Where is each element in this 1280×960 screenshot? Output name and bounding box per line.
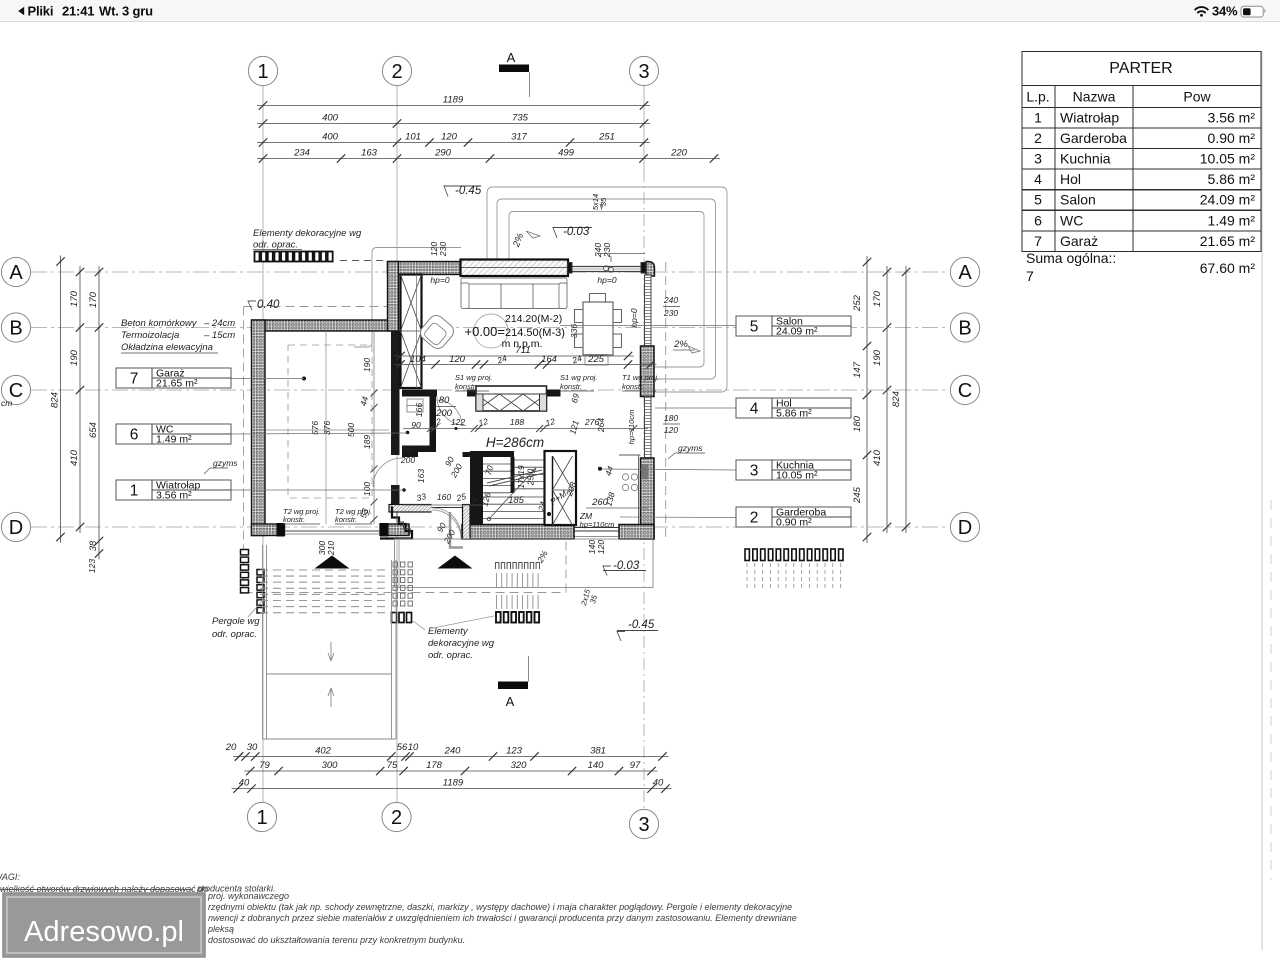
south wall: stairs segment	[462, 525, 574, 540]
svg-text:1.49 m²: 1.49 m²	[156, 434, 192, 446]
svg-text:odr. oprac.: odr. oprac.	[253, 240, 298, 251]
svg-text:dostosować do ukształtowania t: dostosować do ukształtowania terenu przy…	[208, 935, 465, 945]
wall axis dash top-left	[340, 260, 388, 262]
svg-text:S1 wg proj.: S1 wg proj.	[560, 373, 598, 382]
svg-text:80: 80	[439, 395, 450, 406]
svg-text:-0.03: -0.03	[563, 226, 590, 238]
svg-text:240: 240	[444, 746, 462, 757]
stair walk arrow	[487, 468, 536, 521]
svg-text:120: 120	[596, 540, 606, 554]
wifi icon	[1195, 7, 1208, 17]
svg-text:4: 4	[750, 401, 759, 418]
sheet frame right edge	[1261, 51, 1263, 950]
svg-text:190: 190	[872, 349, 883, 366]
svg-text:824: 824	[891, 391, 902, 407]
status bar	[0, 0, 1280, 22]
pergola squares column B	[257, 570, 264, 613]
svg-text:pleksą: pleksą	[207, 924, 234, 934]
svg-text:Termoizolacja: Termoizolacja	[121, 330, 179, 341]
battery icon	[1241, 6, 1263, 17]
svg-text:7: 7	[130, 371, 139, 388]
svg-text:A: A	[958, 262, 972, 284]
svg-text:381: 381	[590, 746, 606, 757]
terrace outline middle	[497, 199, 716, 379]
svg-text:178: 178	[426, 760, 443, 771]
svg-text:122: 122	[451, 417, 465, 427]
svg-text:200: 200	[400, 455, 415, 465]
right dim 252-147-180-245	[852, 256, 871, 543]
svg-text:odr. oprac.: odr. oprac.	[428, 650, 473, 661]
bottom dim row 3	[232, 778, 672, 793]
svg-text:56: 56	[397, 742, 408, 753]
svg-text:WC: WC	[1060, 212, 1083, 228]
svg-text:0.90 m²: 0.90 m²	[1208, 130, 1256, 146]
svg-text:101: 101	[405, 132, 421, 143]
right dim 170-190-410	[872, 266, 891, 533]
PARTER table	[1022, 52, 1261, 252]
east wall: glazing lower (hp=110)	[645, 397, 652, 459]
svg-text:0.40: 0.40	[257, 299, 280, 311]
svg-text:21.65 m²: 21.65 m²	[1200, 233, 1256, 249]
hol dim row	[403, 392, 648, 435]
svg-text:Hol: Hol	[1060, 171, 1081, 187]
svg-text:hp=0: hp=0	[629, 308, 639, 327]
decorative squares row (top)	[255, 252, 333, 262]
svg-text:264: 264	[596, 418, 606, 433]
garage leader dot	[302, 377, 306, 381]
kitchen dim 260/138	[586, 507, 648, 509]
svg-text:376: 376	[322, 421, 332, 435]
grid bubble 2 bottom	[382, 802, 411, 831]
svg-text:317: 317	[511, 132, 528, 143]
svg-text:10: 10	[408, 742, 419, 753]
svg-text:500: 500	[346, 423, 356, 437]
svg-text:3: 3	[638, 814, 649, 836]
svg-text:B: B	[9, 318, 22, 340]
entrance porch steps	[380, 507, 412, 539]
left dim 824	[50, 256, 65, 544]
svg-text:cm: cm	[1, 398, 12, 408]
svg-text:3: 3	[1034, 151, 1042, 167]
svg-text:499: 499	[558, 148, 575, 159]
svg-text:576: 576	[310, 421, 320, 435]
level mark -0.03 top	[553, 226, 592, 238]
svg-text:188: 188	[510, 417, 524, 427]
wall between garage and house	[391, 331, 400, 455]
staircase mid wall	[511, 457, 515, 493]
room label 1 Wiatrolap	[116, 480, 231, 502]
svg-text:hp=0: hp=0	[597, 275, 616, 285]
svg-text:gzyms: gzyms	[678, 443, 703, 453]
svg-text:90: 90	[411, 420, 421, 430]
path outline top-left	[354, 248, 461, 348]
svg-text:24.09 m²: 24.09 m²	[776, 326, 818, 338]
svg-text:1.49 m²: 1.49 m²	[1208, 212, 1256, 228]
exterior walls: main block north	[388, 262, 655, 512]
left dim 170-190-410	[69, 266, 84, 533]
door arc wiatrolap-hol	[437, 397, 466, 426]
center decorative cluster below terrace door	[496, 563, 540, 570]
level mark -0.45 top	[444, 185, 482, 197]
stair break line	[487, 470, 542, 483]
room label 2 Garderoba	[736, 507, 851, 529]
svg-text:A: A	[506, 694, 515, 709]
sofa	[461, 278, 567, 309]
svg-text:Elementy dekoracyjne wg: Elementy dekoracyjne wg	[253, 228, 362, 239]
grid bubble 1 bottom	[247, 802, 276, 831]
svg-text:6: 6	[1034, 212, 1042, 228]
svg-text:UWAGI:: UWAGI:	[0, 872, 20, 882]
svg-text:230: 230	[602, 243, 612, 258]
svg-text:Garderoba: Garderoba	[1060, 130, 1127, 146]
svg-text:234: 234	[293, 148, 310, 159]
svg-text:Pergole wg: Pergole wg	[212, 616, 260, 627]
svg-text:180: 180	[852, 415, 863, 432]
svg-text:6: 6	[130, 427, 139, 444]
garage door jambs	[277, 523, 285, 537]
svg-text:300: 300	[322, 760, 339, 771]
svg-text:konstr.: konstr.	[455, 382, 477, 391]
svg-text:Wt. 3 gru: Wt. 3 gru	[99, 4, 153, 19]
grid bubble B right	[950, 313, 979, 342]
driveway	[263, 545, 397, 739]
garage west wall	[252, 320, 266, 536]
svg-text:2%: 2%	[673, 339, 688, 350]
vestibule east jog wall	[463, 505, 471, 540]
leader lines to rooms	[231, 378, 304, 380]
svg-text:Nazwa: Nazwa	[1073, 89, 1116, 105]
UWAGI notes	[0, 872, 797, 945]
svg-text:240: 240	[663, 295, 678, 305]
svg-text:170: 170	[69, 290, 80, 307]
svg-text:Garaż: Garaż	[1060, 233, 1098, 249]
grid bubble B left	[1, 313, 30, 342]
svg-text:0.90 m²: 0.90 m²	[776, 517, 812, 529]
room label 5 Salon	[736, 316, 851, 338]
svg-text:1: 1	[1034, 110, 1042, 126]
svg-text:402: 402	[315, 746, 332, 757]
WC fixture	[407, 399, 423, 412]
svg-text:123: 123	[87, 559, 97, 573]
svg-text:konstr.: konstr.	[622, 382, 644, 391]
svg-text:1: 1	[257, 61, 268, 83]
svg-text:21:41: 21:41	[62, 4, 94, 19]
svg-text:nwencji z dobranych przez sieb: nwencji z dobranych przez siebie materia…	[208, 913, 797, 923]
svg-text:320: 320	[511, 760, 528, 771]
svg-text:3: 3	[638, 61, 649, 83]
east wall pier	[641, 346, 655, 397]
svg-text:654: 654	[88, 422, 99, 438]
svg-text:7: 7	[1026, 268, 1034, 284]
svg-text:163: 163	[361, 148, 378, 159]
svg-text:7: 7	[1034, 233, 1042, 249]
svg-text:-0.03: -0.03	[613, 560, 640, 572]
svg-text:225: 225	[587, 354, 605, 365]
svg-text:odr. oprac.: odr. oprac.	[212, 629, 257, 640]
svg-text:T1 wg proj.: T1 wg proj.	[622, 373, 659, 382]
grid bubble 1 top	[248, 56, 277, 85]
svg-text:konstr.: konstr.	[560, 382, 582, 391]
salon dim row	[395, 354, 657, 369]
grid bubble 2 top	[382, 56, 411, 85]
svg-text:4: 4	[1034, 171, 1042, 187]
left dim 170-654-38	[88, 266, 103, 560]
vestibule south wall	[389, 505, 441, 513]
grid bubble 3 bottom	[629, 809, 658, 838]
svg-text:10.05 m²: 10.05 m²	[1200, 151, 1256, 167]
grid bubble D left	[1, 512, 30, 541]
right decorative strip below garderoba	[745, 549, 843, 561]
svg-text:Adresowo.pl: Adresowo.pl	[24, 916, 184, 948]
stair west wall	[470, 455, 483, 525]
svg-text:konstr.: konstr.	[283, 515, 305, 524]
svg-text:Okładzina elewacyjna: Okładzina elewacyjna	[121, 342, 213, 353]
svg-text:L.p.: L.p.	[1026, 89, 1049, 105]
Adresowo.pl watermark	[3, 893, 205, 957]
svg-text:190: 190	[69, 349, 80, 366]
door arc garage	[373, 458, 402, 487]
svg-text:25.0: 25.0	[526, 468, 536, 486]
svg-text:1189: 1189	[443, 778, 464, 789]
svg-text:Pow: Pow	[1183, 89, 1211, 105]
svg-text:30: 30	[247, 742, 258, 753]
svg-text:Pliki: Pliki	[28, 4, 54, 19]
level mark -0.45 bottom	[617, 0, 1060, 641]
svg-text:2: 2	[391, 61, 402, 83]
main north-east corner piece	[646, 262, 655, 277]
section mark A top	[499, 50, 530, 97]
svg-text:120: 120	[449, 354, 466, 365]
hob circles	[622, 474, 628, 480]
svg-text:5: 5	[1034, 192, 1042, 208]
armchair	[417, 312, 456, 351]
beam S1 over opening (truss)	[476, 386, 547, 411]
room label 4 Hol	[736, 398, 851, 420]
svg-text:PARTER: PARTER	[1109, 60, 1172, 77]
garage centre lines	[266, 429, 389, 431]
svg-text:1: 1	[130, 483, 139, 500]
svg-text:711: 711	[515, 345, 530, 356]
svg-text:rzędnymi obiektu (tak jak np.: rzędnymi obiektu (tak jak np. schody zew…	[208, 902, 792, 912]
dining table	[575, 294, 622, 356]
svg-text:230: 230	[438, 242, 448, 257]
svg-text:17x19: 17x19	[516, 465, 526, 488]
svg-text:Wiatrołap: Wiatrołap	[1060, 110, 1119, 126]
window W1 north (salon)	[461, 260, 569, 277]
pergola squares column A	[241, 550, 249, 593]
svg-text:410: 410	[872, 449, 883, 466]
top dim row 400-735	[257, 113, 650, 128]
svg-text:Kuchnia: Kuchnia	[1060, 151, 1111, 167]
svg-text:2: 2	[391, 807, 402, 829]
svg-text:140: 140	[588, 760, 605, 771]
main west wall upper	[388, 262, 399, 332]
exterior walls: garage block	[252, 320, 410, 536]
svg-text:24.09 m²: 24.09 m²	[1200, 192, 1256, 208]
svg-text:Beton komórkowy: Beton komórkowy	[121, 318, 198, 329]
wiatrolap/hol wall	[402, 452, 418, 457]
svg-text:75: 75	[387, 760, 398, 771]
chairs	[575, 310, 584, 323]
garage south wall	[252, 524, 285, 536]
svg-text:-0.45: -0.45	[455, 185, 482, 197]
grid row lines A,B,C,D	[31, 271, 949, 273]
svg-text:189: 189	[362, 435, 372, 449]
terrace outline outer	[487, 187, 727, 392]
svg-text:97: 97	[630, 760, 641, 771]
right dim 824	[891, 266, 910, 533]
slope 2% right	[673, 339, 700, 353]
svg-text:3.56 m²: 3.56 m²	[1208, 110, 1256, 126]
svg-text:2: 2	[1034, 130, 1042, 146]
svg-text:1: 1	[256, 807, 267, 829]
svg-text:3: 3	[750, 463, 759, 480]
svg-text:160: 160	[437, 492, 451, 502]
svg-text:252: 252	[852, 294, 863, 312]
room label 3 Kuchnia	[736, 460, 851, 482]
svg-text:400: 400	[322, 113, 339, 124]
svg-text:C: C	[958, 380, 972, 402]
svg-text:A: A	[9, 262, 23, 284]
svg-text:79: 79	[259, 760, 270, 771]
svg-text:185: 185	[508, 495, 525, 506]
grid column lines 1,2,3	[262, 86, 264, 802]
interior wall stub right of door	[467, 390, 476, 397]
svg-text:proj. wykonawczego: proj. wykonawczego	[207, 891, 289, 901]
svg-text:251: 251	[598, 132, 615, 143]
garage dashed opening	[288, 345, 372, 498]
grid bubble 3 top	[629, 56, 658, 85]
door arc wc	[436, 400, 462, 426]
svg-text:120: 120	[664, 425, 678, 435]
svg-text:180: 180	[664, 413, 678, 423]
interior wall salon/hol (y=390) left part	[402, 390, 437, 397]
svg-text:D: D	[9, 517, 23, 539]
svg-text:100: 100	[362, 482, 372, 496]
svg-text:3.56 m²: 3.56 m²	[156, 490, 192, 502]
svg-text:120: 120	[441, 132, 458, 143]
svg-text:104: 104	[410, 354, 426, 365]
entrance arrow triangle 1	[315, 556, 350, 569]
svg-text:147: 147	[852, 361, 863, 378]
svg-text:A: A	[507, 50, 516, 65]
svg-text:245: 245	[852, 486, 863, 504]
level mark -0.03 bottom	[603, 560, 646, 576]
svg-text:1189: 1189	[443, 95, 464, 106]
coffee table circle	[474, 314, 508, 348]
svg-text:– 24cm: – 24cm	[203, 318, 235, 329]
vestibule dim row	[403, 491, 483, 509]
svg-text:166: 166	[414, 403, 424, 417]
top dim row of 5b	[257, 148, 720, 163]
entrance door jamb	[450, 512, 463, 548]
svg-text:S1 wg proj.: S1 wg proj.	[455, 373, 493, 382]
svg-text:+0.00=: +0.00=	[465, 324, 506, 339]
svg-text:40: 40	[239, 778, 250, 789]
svg-text:5.86 m²: 5.86 m²	[776, 408, 812, 420]
svg-text:290: 290	[434, 148, 452, 159]
door arc entrance outside	[432, 510, 461, 539]
svg-text:220: 220	[670, 148, 688, 159]
svg-text:34%: 34%	[1212, 4, 1238, 19]
svg-text:-0.45: -0.45	[628, 619, 655, 631]
terrace outline inner	[509, 212, 704, 368]
svg-text:Salon: Salon	[1060, 192, 1096, 208]
svg-text:410: 410	[69, 449, 80, 466]
south wall kitchen window	[574, 528, 619, 537]
svg-text:– 15cm: – 15cm	[203, 330, 235, 341]
bottom dim row 1	[233, 746, 669, 761]
svg-text:2: 2	[750, 510, 759, 527]
roof overhang dashed outline	[244, 262, 666, 593]
interior wall right of beam	[544, 390, 561, 397]
top dim row of 5	[257, 132, 650, 147]
svg-text:Suma ogólna::: Suma ogólna::	[1026, 250, 1116, 266]
svg-text:dekoracyjne wg: dekoracyjne wg	[428, 638, 495, 649]
entrance arrow triangle 2	[438, 556, 473, 569]
svg-text:hp=110cm: hp=110cm	[580, 520, 615, 529]
bottom dim row 2	[244, 760, 657, 775]
svg-text:5.86 m²: 5.86 m²	[1208, 171, 1256, 187]
walkway decorative cluster	[393, 562, 412, 606]
room label 7 Garaz	[116, 368, 231, 390]
svg-text:190: 190	[362, 358, 372, 372]
slope 2% top	[511, 231, 540, 249]
level text +0.00	[465, 313, 565, 350]
staircase treads	[483, 460, 545, 519]
south terrace outline	[395, 539, 654, 588]
svg-text:824: 824	[50, 392, 61, 408]
pergola dashed rows	[260, 570, 389, 613]
sliding door HS north	[568, 263, 647, 274]
section mark A bottom	[498, 656, 529, 709]
svg-text:10.05 m²: 10.05 m²	[776, 470, 818, 482]
svg-text:gzyms: gzyms	[213, 458, 238, 468]
svg-text:164: 164	[541, 354, 557, 365]
svg-text:hp=0: hp=0	[430, 275, 449, 285]
svg-text:123: 123	[506, 746, 523, 757]
svg-text:163: 163	[416, 469, 426, 483]
staircase upper wall	[470, 451, 514, 457]
leader dots	[406, 431, 410, 435]
grid bubble D right	[950, 512, 979, 541]
east wall lower	[641, 458, 655, 539]
svg-text:200: 200	[435, 408, 453, 419]
svg-text:40: 40	[653, 778, 664, 789]
svg-text:214.20(M-2): 214.20(M-2)	[505, 313, 562, 325]
door arc vestibule entrance	[433, 508, 461, 536]
grid bubble C right	[950, 375, 979, 404]
svg-text:38: 38	[88, 540, 99, 551]
svg-text:5: 5	[750, 319, 759, 336]
room label 6 WC	[116, 424, 231, 446]
svg-text:B: B	[958, 318, 971, 340]
svg-text:D: D	[958, 517, 972, 539]
svg-text:21.65 m²: 21.65 m²	[156, 378, 198, 390]
WC walls	[430, 397, 437, 446]
south wall: kitchen segment	[619, 525, 654, 540]
grid bubble A left	[1, 257, 30, 286]
stair/PM shaft	[545, 451, 577, 525]
grid bubble C left	[1, 375, 30, 404]
svg-text:210: 210	[326, 541, 336, 556]
east wall: glazing upper	[645, 275, 652, 346]
garage right inner vdim	[358, 331, 377, 524]
garage door line	[285, 530, 381, 532]
svg-text:konstr.: konstr.	[335, 515, 357, 524]
svg-text:67.60 m²: 67.60 m²	[1200, 260, 1256, 276]
svg-text:400: 400	[322, 132, 339, 143]
